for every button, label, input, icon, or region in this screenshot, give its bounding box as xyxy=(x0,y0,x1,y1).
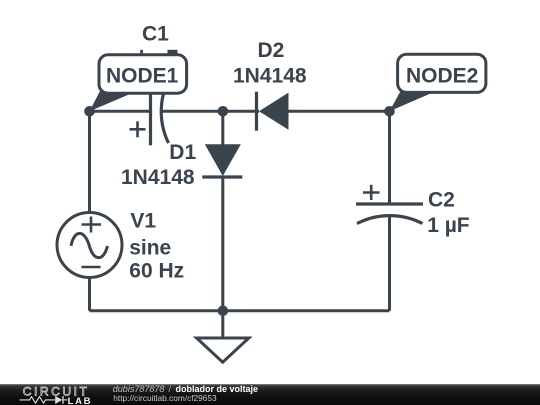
wire bottom horizontal xyxy=(90,309,390,312)
wire C2 top lead (NODE2 junction down to C2) xyxy=(388,111,391,204)
wire ground stub xyxy=(221,311,224,338)
svg-text:C1: C1 xyxy=(142,23,169,46)
junction node C (NODE2 net) xyxy=(384,106,395,117)
svg-text:LAB: LAB xyxy=(68,396,93,405)
wire top-left horizontal (NODE1 junction to C1 left plate) xyxy=(90,110,151,113)
wire left vertical (NODE1 junction down to V1 plus terminal) xyxy=(88,111,91,213)
wire D1 cathode lead down to bottom wire xyxy=(221,177,224,311)
svg-text:V1: V1 xyxy=(130,209,156,232)
wire C1 right plate to D1 anode junction xyxy=(162,110,260,113)
capacitor C2 xyxy=(356,185,423,224)
svg-text:D2: D2 xyxy=(258,39,285,62)
svg-text:1N4148: 1N4148 xyxy=(233,64,307,87)
svg-text:60 Hz: 60 Hz xyxy=(129,259,184,282)
diode D2 xyxy=(257,92,289,131)
svg-text:sine: sine xyxy=(129,236,171,259)
node flag NODE2 xyxy=(390,54,486,111)
svg-text:1N4148: 1N4148 xyxy=(121,166,195,189)
svg-text:D1: D1 xyxy=(169,141,196,164)
voltage source V1 xyxy=(57,213,122,278)
capacitor C1 xyxy=(130,50,178,145)
diode D1 xyxy=(202,144,242,177)
svg-text:C2: C2 xyxy=(428,189,455,212)
wire D2 anode to NODE2 junction xyxy=(288,110,390,113)
svg-text:1 µF: 1 µF xyxy=(427,214,470,237)
wire V1 minus terminal down xyxy=(88,277,91,311)
ground xyxy=(197,338,249,362)
junction node B (D1 anode) xyxy=(218,106,229,117)
svg-text:NODE1: NODE1 xyxy=(106,65,179,88)
logo resistor-diode squiggle xyxy=(20,396,68,404)
junction node A (NODE1 net, left) xyxy=(84,106,95,117)
svg-text:NODE2: NODE2 xyxy=(406,65,478,88)
node flag NODE1 xyxy=(90,55,187,111)
wire D1 anode lead xyxy=(221,111,224,146)
junction node D (ground net) xyxy=(218,306,229,317)
footer bar xyxy=(0,384,540,405)
footer credit line xyxy=(113,384,258,403)
svg-text:http://circuitlab.com/cf29653: http://circuitlab.com/cf29653 xyxy=(113,393,217,403)
wire C2 bottom lead xyxy=(388,216,391,311)
